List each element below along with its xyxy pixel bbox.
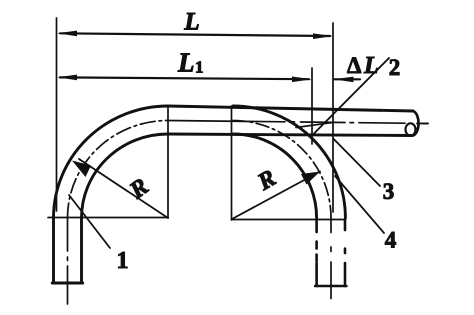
svg-text:1: 1 xyxy=(195,58,204,77)
tube right end cap arc xyxy=(411,111,419,136)
right leg right edge (dashed) xyxy=(344,220,347,287)
leader 3 xyxy=(334,139,380,186)
leader 4 xyxy=(335,176,384,233)
svg-text:L: L xyxy=(177,48,195,78)
extension line left (at tube end, x=56.5) xyxy=(56,18,58,211)
svg-text:L: L xyxy=(183,9,199,36)
leader 2 xyxy=(311,58,389,137)
centerline: right leg (dash-dot) xyxy=(330,218,332,299)
springback axis short mark xyxy=(296,122,334,127)
svg-text:4: 4 xyxy=(385,228,397,253)
centerline: straight section xyxy=(168,121,405,124)
svg-text:R: R xyxy=(124,174,153,205)
left leg bottom cap xyxy=(52,282,82,285)
tube inner edge: left leg inner + left bend inner arc + bottom edge xyxy=(82,134,412,283)
right bend inner arc xyxy=(233,134,317,218)
R leader right xyxy=(232,172,320,220)
dimension L1 line xyxy=(60,77,309,79)
right leg bottom cap xyxy=(315,285,346,288)
extension line middle (L1 right limit, x=312) xyxy=(311,68,313,144)
leader 1 xyxy=(69,195,110,248)
centerline: stub past tube end xyxy=(417,122,428,124)
svg-text:R: R xyxy=(253,165,281,196)
dimension dL arrow (points left at right extension line) xyxy=(334,78,361,80)
left bend tangent vertical xyxy=(167,106,169,218)
centerline: right bend arc xyxy=(233,121,331,219)
right bend tangent vertical xyxy=(231,106,233,220)
left bend baseline xyxy=(48,217,168,219)
R leader left xyxy=(79,159,168,218)
svg-text:1: 1 xyxy=(117,248,129,274)
dimension L arrow left xyxy=(57,31,77,37)
R arrow right xyxy=(301,172,320,185)
tube right end bore ellipse xyxy=(406,123,416,135)
centerline: left bend arc xyxy=(68,121,169,219)
centerline: left leg xyxy=(67,218,69,304)
svg-text:2: 2 xyxy=(389,55,401,80)
right bend outer arc xyxy=(233,106,345,218)
dimension L1 arrow right xyxy=(292,77,312,83)
extension line right (L / dL limit, x=333) xyxy=(332,23,334,212)
dimension L arrow right xyxy=(313,33,333,39)
svg-text:3: 3 xyxy=(383,179,395,204)
tube outer edge: left leg outer + left bend outer arc + top edge xyxy=(54,106,414,283)
right bend baseline xyxy=(232,219,346,221)
right leg left edge (dashed) xyxy=(315,220,318,287)
svg-text:Δ: Δ xyxy=(347,53,362,78)
dimension L1 arrow left xyxy=(57,75,77,81)
R arrow left xyxy=(72,161,91,178)
dimension L line xyxy=(60,33,330,36)
